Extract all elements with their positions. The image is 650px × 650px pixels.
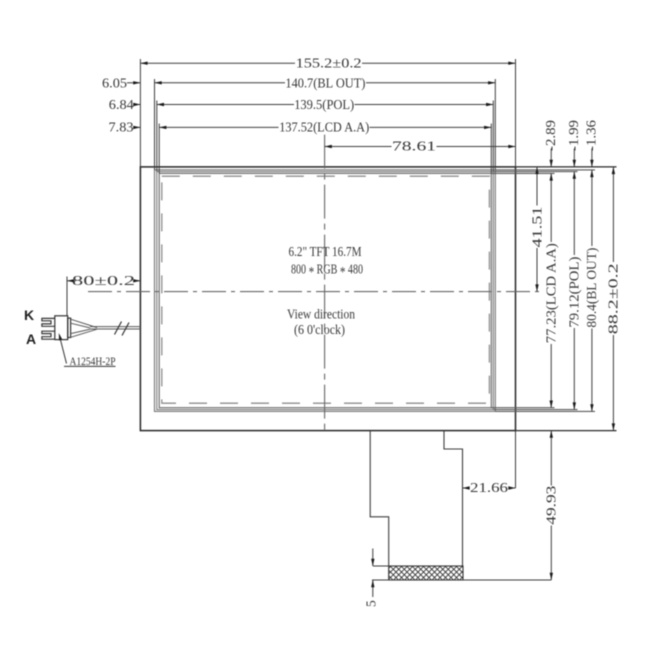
dim line 77.23 (550, 173, 552, 242)
svg-text:6.2" TFT 16.7M: 6.2" TFT 16.7M (289, 244, 362, 259)
active area dashed rectangle (162, 176, 490, 403)
dim line 5 lower (372, 580, 374, 597)
ext POL top right (493, 171, 577, 173)
arrows top (140, 62, 147, 65)
svg-text:K: K (24, 307, 34, 323)
dim line 78.61 (325, 146, 392, 148)
wire bottom lower (71, 329, 97, 337)
dim line 139.5 (157, 104, 294, 106)
ext line module right top (515, 59, 517, 167)
svg-text:6.84: 6.84 (109, 97, 134, 112)
cable line upper (90, 326, 140, 328)
stub line 1.99 (573, 149, 575, 167)
FPC right edge (444, 431, 463, 566)
svg-text:21.66: 21.66 (470, 480, 508, 495)
connector housing step (68, 318, 71, 337)
leader 7.83 (134, 126, 140, 128)
cable break symbol (115, 322, 130, 336)
ext LCD top right (491, 172, 554, 174)
ext line LCD left (158, 124, 160, 174)
POL rectangle (157, 172, 494, 410)
ext line POL right (492, 101, 494, 172)
LCD glass rectangle (159, 173, 491, 407)
ext module top right (516, 166, 617, 168)
FPC left edge (370, 431, 389, 566)
hatch bottom ext line (372, 579, 551, 581)
arrows right side (550, 160, 553, 167)
ext line BL left (154, 79, 156, 170)
svg-text:137.52(LCD A.A): 137.52(LCD A.A) (279, 120, 369, 135)
svg-text:155.2±0.2: 155.2±0.2 (296, 56, 362, 71)
leader 6.84 (134, 104, 140, 106)
dim line 21.66 (463, 487, 470, 489)
module outline (140, 167, 515, 431)
horizontal centerline (88, 291, 541, 293)
svg-text:80±0.2: 80±0.2 (72, 273, 135, 288)
ext module bottom right (516, 430, 617, 432)
ext module right bottom (515, 431, 517, 488)
cable line lower (90, 328, 140, 330)
dim line 49.93 (550, 431, 552, 486)
hatch top ext line (373, 565, 389, 567)
ext BL top right (495, 169, 595, 171)
ext LCD bottom right (491, 407, 554, 409)
stub line 2.89 (550, 149, 552, 167)
svg-text:(6 0'clock): (6 0'clock) (294, 322, 345, 337)
dim line 80 (67, 280, 72, 282)
dim line 155.2 (140, 62, 295, 64)
top prong (42, 318, 55, 326)
leader 6.05 (127, 82, 140, 84)
svg-text:139.5(POL): 139.5(POL) (294, 97, 354, 112)
ext line BL right (494, 79, 496, 170)
wire bottom upper (71, 329, 90, 333)
ext line module left top (139, 59, 141, 167)
svg-text:79.12(POL): 79.12(POL) (567, 257, 582, 328)
svg-text:5: 5 (364, 600, 379, 607)
connector housing (55, 316, 68, 340)
svg-text:41.51: 41.51 (529, 207, 544, 248)
ext line LCD right (490, 124, 492, 174)
dim line 88.2 (612, 167, 614, 262)
dim line 80.4 (591, 170, 593, 246)
svg-text:-1.36: -1.36 (584, 120, 599, 151)
svg-text:80.4(BL OUT): 80.4(BL OUT) (584, 248, 599, 328)
dim line 140.7 (155, 82, 286, 84)
svg-text:View direction: View direction (287, 307, 355, 322)
svg-text:-1.99: -1.99 (566, 120, 581, 151)
svg-text:A1254H-2P: A1254H-2P (70, 356, 116, 368)
ext POL bottom right (493, 409, 577, 411)
wire top lower (71, 323, 90, 328)
bottom prong (42, 331, 55, 339)
ext line 80 left (66, 277, 68, 316)
ext line POL left (156, 101, 158, 172)
svg-text:78.61: 78.61 (392, 139, 436, 154)
stub line 1.36 (591, 149, 593, 167)
BL OUT rectangle (155, 170, 496, 412)
svg-text:7.83: 7.83 (109, 120, 134, 135)
svg-text:-2.89: -2.89 (543, 120, 558, 151)
svg-text:6.05: 6.05 (102, 75, 127, 90)
ext BL bottom right (495, 410, 595, 412)
svg-text:88.2±0.2: 88.2±0.2 (606, 263, 621, 334)
leader line A1254H-2P (60, 336, 116, 366)
wire top upper (71, 319, 97, 327)
dim line 5 upper (372, 549, 374, 567)
FPC stiffener hatch (389, 566, 463, 580)
dim line 41.51 (536, 167, 538, 206)
svg-text:77.23(LCD A.A): 77.23(LCD A.A) (544, 243, 559, 343)
svg-text:49.93: 49.93 (544, 485, 559, 524)
svg-text:A: A (26, 331, 36, 347)
vertical centerline (324, 135, 326, 431)
dim line 137.52 (159, 126, 278, 128)
dim line 79.12 (573, 172, 575, 255)
svg-text:140.7(BL OUT): 140.7(BL OUT) (285, 75, 365, 90)
